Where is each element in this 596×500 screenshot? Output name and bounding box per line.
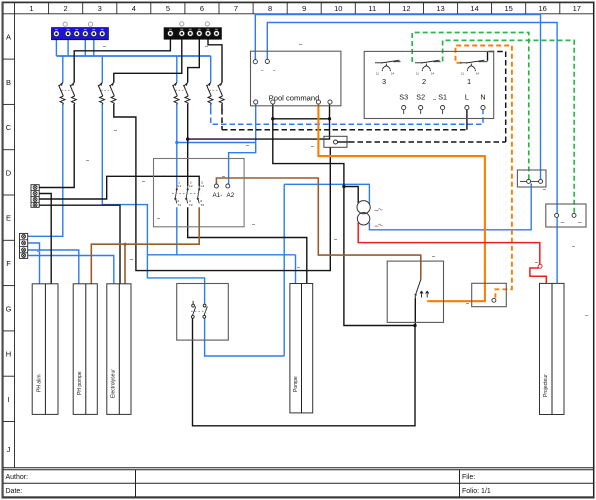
svg-text:T3: T3 <box>200 203 204 207</box>
float pressure switch box <box>387 261 443 322</box>
wire interlock bar to PC T4 <box>188 102 330 140</box>
wire neutral feed term2 <box>67 40 69 56</box>
wire Q3 phase to contactor pole2 <box>187 104 189 186</box>
switch 3 <box>375 60 401 71</box>
svg-text:2: 2 <box>64 4 68 13</box>
svg-text:13: 13 <box>436 4 444 13</box>
wire phase term3 to Q3 <box>188 39 200 82</box>
strip X4 (4 terminals) <box>20 233 28 258</box>
wire transformer secondary to plug <box>369 184 531 230</box>
pole 2 <box>186 186 188 204</box>
svg-text:1: 1 <box>29 4 33 13</box>
svg-text:14: 14 <box>470 4 478 13</box>
svg-text:PH pompe: PH pompe <box>77 371 83 395</box>
wire pool command T1 to A2 <box>229 104 256 185</box>
wire neutral feed term1 blue block <box>55 40 57 56</box>
svg-text:I: I <box>7 395 9 404</box>
svg-text:L3: L3 <box>201 184 205 188</box>
wire N dashed from Q4 to switchbox N <box>211 109 483 124</box>
svg-text:L1: L1 <box>178 184 182 188</box>
wire transformer neutral riser <box>284 184 369 356</box>
svg-text:12: 12 <box>402 4 410 13</box>
svg-text:8: 8 <box>268 4 272 13</box>
wire green dashed switch 2 right to socket <box>443 40 575 213</box>
svg-text:L: L <box>465 93 469 102</box>
load box Pompe <box>290 284 313 413</box>
svg-text:Date:: Date: <box>6 488 23 495</box>
pole 3 <box>198 186 200 204</box>
wire PC T2 down to pressure switch node <box>273 104 415 326</box>
svg-text:L2: L2 <box>189 184 193 188</box>
pool command box <box>251 51 341 106</box>
title block <box>3 468 594 497</box>
svg-text:Author:: Author: <box>6 474 29 481</box>
wire drop to breaker Q2 <box>101 56 103 83</box>
svg-text:16: 16 <box>539 4 547 13</box>
wire switch 1 contact lead <box>487 52 489 61</box>
svg-text:11: 11 <box>416 72 419 76</box>
breaker Q1 <box>59 82 77 104</box>
wire red transformer secondary to connector <box>358 223 540 265</box>
load box Electrolyseur <box>107 284 131 415</box>
wire neutral bus <box>56 55 210 57</box>
svg-text:Electrolyseur: Electrolyseur <box>111 369 117 398</box>
svg-text:6: 6 <box>200 4 204 13</box>
wire Q2 neutral out <box>102 104 147 255</box>
junction dots <box>186 117 417 327</box>
svg-text:PH alim: PH alim <box>37 374 43 392</box>
wire Q1 out to strip X1 <box>39 104 74 188</box>
svg-text:File:: File: <box>462 474 475 481</box>
svg-text:11: 11 <box>461 72 464 76</box>
wire Q1 neutral out to strip X2 <box>27 104 63 236</box>
load box PH alim <box>32 284 58 415</box>
wire strip X1-4 to Electrolyseur <box>39 205 120 284</box>
stray reference marks <box>37 44 588 316</box>
wire drop to breaker Q4 <box>210 56 212 83</box>
wire pool command top T2 to projecteur <box>267 23 557 284</box>
svg-text:A1-: A1- <box>213 192 223 199</box>
svg-text:S1: S1 <box>438 93 447 102</box>
svg-text:14: 14 <box>391 72 395 76</box>
svg-text:A2: A2 <box>227 192 235 199</box>
wire PC T2-T4 link <box>273 118 330 120</box>
svg-text:11: 11 <box>368 4 376 13</box>
mount marks above X2 <box>180 22 210 26</box>
wire phase term5 to Q4 <box>208 39 222 82</box>
svg-text:S2: S2 <box>416 93 425 102</box>
svg-text:Pool command: Pool command <box>269 94 320 103</box>
strip X3 (4 terminals) <box>31 185 39 208</box>
wire Q4 neutral stub <box>210 104 212 110</box>
wire drop to breaker Q1 <box>62 56 64 83</box>
wire brown contactor pole3 out to loads <box>91 207 199 284</box>
column numbers <box>29 4 581 13</box>
wire Q4 phase stub <box>221 104 223 110</box>
contactor KM1 <box>154 159 245 227</box>
wire strip X2-3 to PH pompe <box>27 250 79 284</box>
wire branch to switch S pole <box>147 255 204 305</box>
wire strip X2-2 to PH alim <box>27 243 40 284</box>
S terminals <box>399 93 485 102</box>
svg-text:17: 17 <box>573 4 581 13</box>
svg-text:T2: T2 <box>189 203 193 207</box>
linkage <box>172 193 201 195</box>
plug connector 1 <box>517 170 546 187</box>
wire contactor pole2 out to Pompe <box>188 207 307 283</box>
svg-text:11: 11 <box>376 72 379 76</box>
wire phase term2 to Q2 <box>114 39 182 82</box>
interlock pin box <box>324 136 347 147</box>
orange socket box <box>472 283 507 306</box>
breaker Q4 <box>207 82 225 104</box>
svg-text:B: B <box>6 78 11 87</box>
wire contactor pole1 out <box>176 207 178 255</box>
wire red connector to projecteur <box>530 268 546 283</box>
svg-text:Folio: 1/1: Folio: 1/1 <box>462 488 491 495</box>
wire bottom return loop <box>193 318 416 426</box>
wire neutral feed term4 <box>84 40 86 56</box>
wire interlock dashed to switch 1 <box>349 52 506 143</box>
wire brown A1 to float switch <box>216 178 420 280</box>
breaker Q2 <box>98 82 116 104</box>
wire float contact down <box>414 298 416 325</box>
svg-text:G: G <box>6 304 12 313</box>
svg-text:14: 14 <box>431 72 435 76</box>
wire N terminal stub <box>482 110 484 114</box>
red connector pin <box>538 264 542 268</box>
svg-text:H: H <box>6 350 11 359</box>
svg-text:Projecteur: Projecteur <box>543 374 549 397</box>
coil terminals A1 A2 <box>214 184 218 188</box>
svg-text:T1: T1 <box>177 203 181 207</box>
wire L dashed from Q4 black <box>222 109 467 130</box>
svg-text:14: 14 <box>476 72 480 76</box>
svg-text:2: 2 <box>422 77 426 86</box>
svg-text:A: A <box>6 33 11 42</box>
svg-text:15: 15 <box>505 4 513 13</box>
svg-text:D: D <box>6 168 12 177</box>
wire neutral distribution to Pompe <box>147 255 295 284</box>
terminal block X1 blue <box>52 28 109 40</box>
wire Q2 out <box>114 104 330 271</box>
wire strip X1-2 to PH alim <box>39 194 51 284</box>
switch 2 <box>415 60 441 71</box>
wire branch to transformer primary <box>344 187 358 204</box>
left ruler band row ticks <box>3 59 15 421</box>
svg-text:J: J <box>7 445 11 454</box>
wire through switch to junction <box>205 319 285 357</box>
svg-text:S3: S3 <box>399 93 408 102</box>
pole 1 <box>175 186 177 204</box>
wire pin box lead <box>338 141 350 143</box>
svg-text:N: N <box>480 93 485 102</box>
wire neutral feed term5 <box>93 40 95 57</box>
row letters <box>6 33 12 455</box>
wire strip X1-3 to contactor pole3 top <box>39 176 199 199</box>
socket connector 2 <box>546 204 586 227</box>
svg-text:1: 1 <box>467 77 471 86</box>
svg-text:E: E <box>6 214 11 223</box>
svg-text:5: 5 <box>166 4 170 13</box>
wire phase term1 black block to Q1 <box>74 39 170 82</box>
load box PH pompe <box>73 284 97 415</box>
pump contactor / 2-pole switch box <box>177 284 229 341</box>
wire green dashed switch 2 left to plug <box>412 33 529 180</box>
wire orange PC T3 to pressure switch <box>318 104 485 302</box>
wire strip X2-4 to Electrolyseur <box>27 256 114 284</box>
svg-text:3: 3 <box>382 77 386 86</box>
wire link Q3 to pool command T1 <box>177 142 256 144</box>
svg-text:9: 9 <box>302 4 306 13</box>
load box Projecteur <box>540 283 565 414</box>
svg-text:Pompe: Pompe <box>293 376 299 392</box>
switch 1 <box>460 60 488 71</box>
svg-text:4: 4 <box>132 4 136 13</box>
wire orange dashed switch 1 circuit <box>456 46 512 298</box>
switches box <box>364 51 494 118</box>
svg-text:F: F <box>6 259 11 268</box>
wire pool command top T1 to plug <box>255 15 540 180</box>
mount marks above X1 <box>63 22 93 26</box>
wire Q3 neutral to contactor pole1 <box>176 104 178 186</box>
svg-text:10: 10 <box>334 4 342 13</box>
transformer TR1 <box>357 201 383 227</box>
wire drop to breaker Q3 <box>176 56 178 83</box>
wire L terminal lead <box>466 110 468 130</box>
svg-text:C: C <box>6 123 12 132</box>
svg-text:3: 3 <box>98 4 102 13</box>
terminal block X2 black <box>164 28 221 40</box>
svg-text:7: 7 <box>234 4 238 13</box>
breaker Q3 <box>173 82 190 104</box>
